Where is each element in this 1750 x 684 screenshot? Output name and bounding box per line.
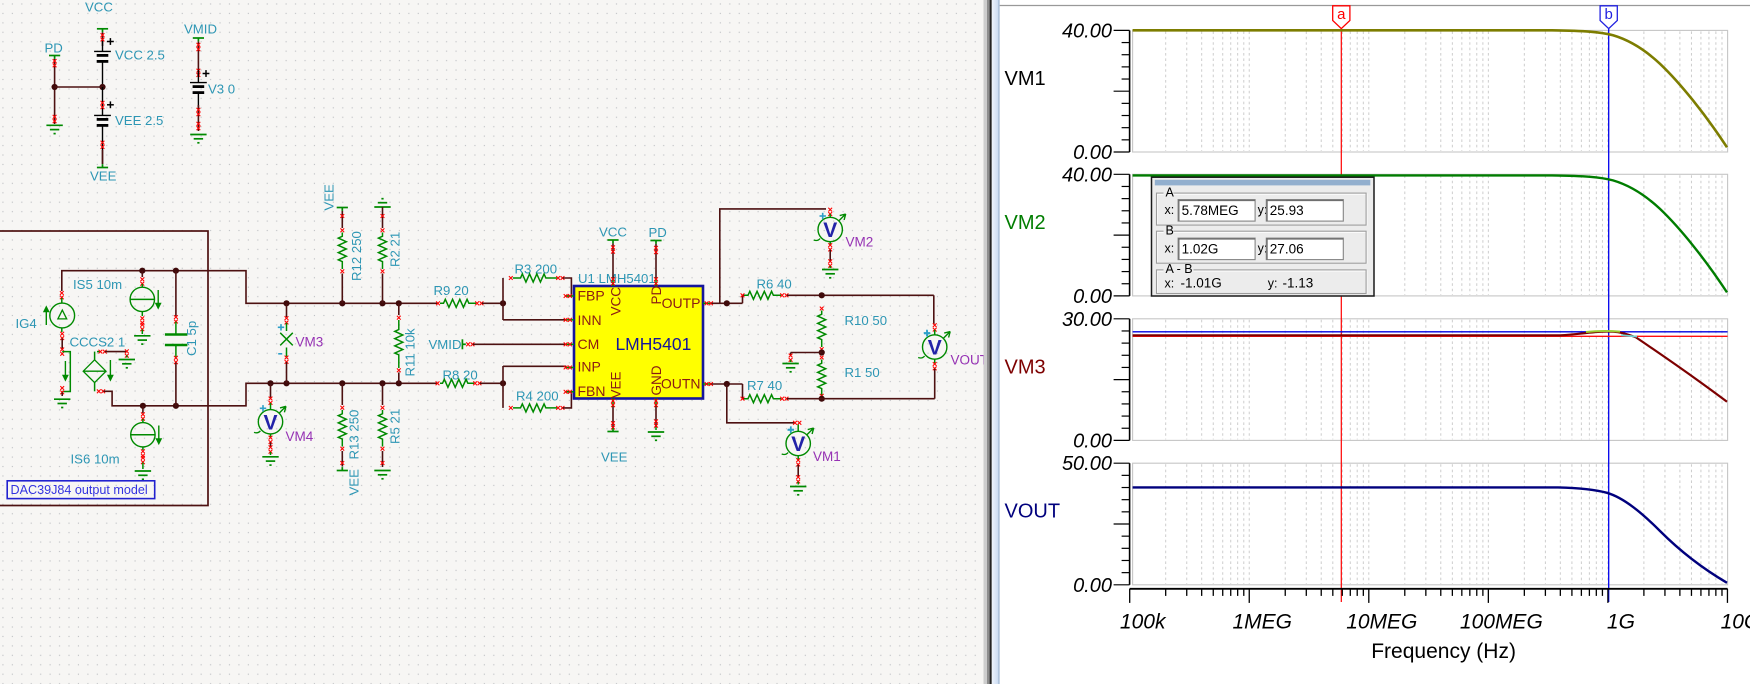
svg-text:10G: 10G <box>1721 611 1750 634</box>
svg-text:x:: x: <box>1165 276 1175 290</box>
svg-text:B: B <box>1166 223 1174 237</box>
svg-text:VM1: VM1 <box>813 449 841 464</box>
svg-text:R3 200: R3 200 <box>515 262 558 277</box>
svg-text:LMH5401: LMH5401 <box>615 334 691 354</box>
svg-text:0.00: 0.00 <box>1073 430 1112 452</box>
svg-text:R11 10k: R11 10k <box>403 328 418 377</box>
svg-text:25.93: 25.93 <box>1270 203 1304 218</box>
svg-text:VCC: VCC <box>609 287 624 316</box>
svg-text:U1 LMH5401: U1 LMH5401 <box>578 271 656 286</box>
svg-text:VM2: VM2 <box>1005 212 1046 234</box>
svg-text:5.78MEG: 5.78MEG <box>1182 203 1239 218</box>
svg-text:VEE: VEE <box>90 169 117 184</box>
svg-text:R8 20: R8 20 <box>443 368 478 383</box>
svg-text:V: V <box>263 411 277 434</box>
svg-text:y:: y: <box>1268 276 1278 290</box>
svg-text:V: V <box>928 337 942 360</box>
svg-text:R13 250: R13 250 <box>347 410 362 460</box>
svg-text:R9 20: R9 20 <box>434 283 469 298</box>
svg-text:R1 50: R1 50 <box>845 365 880 380</box>
svg-text:OUTN: OUTN <box>661 375 701 391</box>
svg-text:30.00: 30.00 <box>1062 309 1112 331</box>
svg-text:R4 200: R4 200 <box>516 389 559 404</box>
svg-text:0.00: 0.00 <box>1073 142 1112 164</box>
svg-text:IG4: IG4 <box>16 316 37 331</box>
svg-text:CCCS2 1: CCCS2 1 <box>70 335 126 350</box>
svg-text:PD: PD <box>649 285 664 304</box>
svg-text:-1.01G: -1.01G <box>1181 275 1222 290</box>
svg-text:0.00: 0.00 <box>1073 575 1112 597</box>
svg-text:V: V <box>823 219 837 242</box>
svg-text:x:: x: <box>1165 203 1175 217</box>
svg-text:OUTP: OUTP <box>662 295 701 311</box>
svg-text:VM3: VM3 <box>296 335 324 350</box>
svg-text:CM: CM <box>578 336 600 352</box>
svg-text:V3 0: V3 0 <box>208 82 235 97</box>
svg-text:A - B: A - B <box>1166 262 1193 276</box>
svg-text:PD: PD <box>649 225 667 240</box>
svg-text:R5 21: R5 21 <box>388 409 403 444</box>
svg-text:GND: GND <box>649 365 664 395</box>
svg-text:VM1: VM1 <box>1005 68 1046 90</box>
svg-text:VMID: VMID <box>184 22 217 37</box>
svg-text:0.00: 0.00 <box>1073 286 1112 308</box>
svg-text:40.00: 40.00 <box>1062 20 1112 42</box>
svg-text:VEE: VEE <box>347 469 362 496</box>
svg-text:100k: 100k <box>1120 611 1167 634</box>
svg-text:10MEG: 10MEG <box>1346 611 1417 634</box>
svg-text:VM4: VM4 <box>286 429 314 444</box>
svg-text:VMID: VMID <box>429 337 462 352</box>
svg-text:FBP: FBP <box>578 288 605 304</box>
svg-text:IS6 10m: IS6 10m <box>71 452 120 467</box>
svg-text:1MEG: 1MEG <box>1232 611 1292 634</box>
svg-text:50.00: 50.00 <box>1062 453 1112 475</box>
svg-text:VCC: VCC <box>85 0 113 15</box>
svg-text:VCC 2.5: VCC 2.5 <box>115 48 165 63</box>
svg-text:INP: INP <box>578 359 601 375</box>
svg-text:-1.13: -1.13 <box>1283 275 1314 290</box>
svg-text:PD: PD <box>45 41 63 56</box>
svg-text:IS5 10m: IS5 10m <box>73 277 122 292</box>
svg-text:V: V <box>791 433 805 456</box>
svg-text:VEE 2.5: VEE 2.5 <box>115 113 163 128</box>
svg-text:100MEG: 100MEG <box>1460 611 1543 634</box>
svg-text:VEE: VEE <box>322 184 337 211</box>
svg-text:VM3: VM3 <box>1005 356 1046 378</box>
svg-text:R7 40: R7 40 <box>747 378 782 393</box>
svg-text:FBN: FBN <box>578 383 606 399</box>
svg-text:40.00: 40.00 <box>1062 164 1112 186</box>
svg-text:VEE: VEE <box>601 450 628 465</box>
svg-text:A: A <box>1166 185 1175 199</box>
svg-text:VOUT: VOUT <box>1005 501 1061 523</box>
svg-text:x:: x: <box>1165 241 1175 255</box>
svg-text:R2 21: R2 21 <box>388 232 403 267</box>
svg-text:b: b <box>1605 6 1613 23</box>
svg-text:1G: 1G <box>1607 611 1635 634</box>
svg-text:Frequency (Hz): Frequency (Hz) <box>1371 640 1516 663</box>
svg-text:1.02G: 1.02G <box>1182 241 1219 256</box>
svg-text:DAC39J84 output model: DAC39J84 output model <box>11 483 148 497</box>
svg-text:VEE: VEE <box>609 371 624 398</box>
svg-text:C1 5p: C1 5p <box>184 321 199 356</box>
svg-text:VCC: VCC <box>599 225 627 240</box>
svg-text:27.06: 27.06 <box>1270 241 1304 256</box>
svg-text:R12 250: R12 250 <box>349 231 364 281</box>
svg-text:R6 40: R6 40 <box>757 277 792 292</box>
svg-text:VM2: VM2 <box>846 235 874 250</box>
svg-text:a: a <box>1337 6 1346 23</box>
svg-text:R10 50: R10 50 <box>845 313 888 328</box>
svg-text:INN: INN <box>578 312 602 328</box>
